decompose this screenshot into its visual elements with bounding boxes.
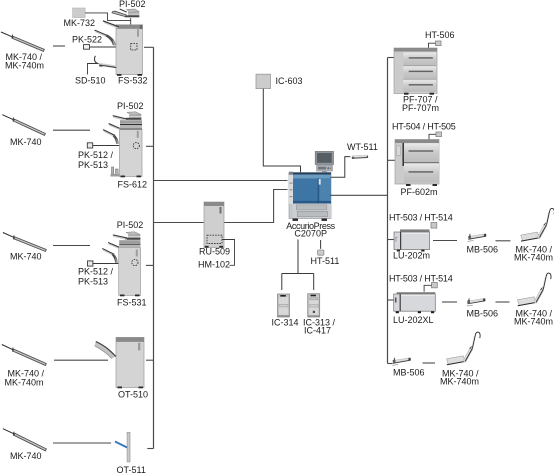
label MB-506 row2 (467, 309, 499, 319)
trays FS-531 (102, 235, 127, 263)
tray MB-506 row2 (467, 298, 486, 306)
svg-text:MK-740: MK-740 (10, 252, 42, 262)
label LU-202m (393, 251, 430, 261)
svg-text:C2070P: C2070P (294, 229, 327, 239)
label OT-510 (118, 390, 148, 400)
label MK-732 (64, 18, 96, 28)
mount kit MK-740/MK-740m icon group1 (1, 32, 44, 51)
wire dash group3 (53, 245, 90, 247)
label MB-506 row1 (467, 245, 499, 255)
controller IC-314 tower (278, 294, 290, 317)
svg-text:MK-740m: MK-740m (5, 61, 44, 71)
svg-text:MB-506: MB-506 (467, 245, 499, 255)
wire tick LU-202m (388, 239, 397, 241)
label MB-506 row3 (393, 368, 425, 378)
label RU-509 (199, 247, 230, 257)
label IC-603 (276, 76, 303, 86)
label MK-740 / MK-740m row3 (440, 369, 479, 387)
label AccurioPress C2070P (286, 221, 335, 239)
mount kit MK-740 icon group2 (2, 115, 45, 136)
svg-text:PF-602m: PF-602m (401, 187, 438, 197)
svg-text:IC-314: IC-314 (272, 318, 299, 328)
large capacity unit LU-202m box (394, 229, 430, 251)
svg-text:MK-740m: MK-740m (514, 317, 553, 327)
wire machine to right bus (330, 194, 388, 196)
label PK-512/PK-513 group2 (78, 150, 114, 170)
svg-text:PK-512 /: PK-512 / (78, 267, 114, 277)
hole punch dashed circle FS-531 (132, 259, 138, 265)
paper feeder PF-602m box (395, 140, 439, 187)
interface MK-732 box (73, 8, 86, 18)
label HM-102 (198, 260, 230, 270)
label PI-502 group3 (117, 220, 144, 230)
wire bus to machine upper (154, 180, 288, 182)
label PF-707 / PF-707m (402, 94, 439, 113)
label WT-511 (347, 142, 378, 152)
svg-text:RU-509: RU-509 (199, 247, 230, 257)
label MK-740 / MK-740m row2 (514, 309, 553, 327)
label HT-506 (425, 30, 455, 40)
label IC-314 (272, 318, 299, 328)
label SD-510 (75, 76, 106, 86)
svg-text:LU-202XL: LU-202XL (393, 315, 434, 325)
label PI-502 group1 (119, 0, 146, 9)
svg-text:OT-510: OT-510 (118, 390, 148, 400)
output tray OT-510 box (116, 337, 144, 388)
svg-text:PI-502: PI-502 (117, 101, 144, 111)
svg-text:IC-603: IC-603 (276, 76, 303, 86)
wire left bus (153, 47, 155, 448)
heater HT-503/514 upper box (431, 223, 437, 229)
svg-text:PK-513: PK-513 (78, 160, 108, 170)
wire tick PF-707 (388, 57, 395, 59)
wire WT-511 (331, 157, 351, 178)
svg-text:HT-503 / HT-514: HT-503 / HT-514 (389, 274, 453, 284)
svg-text:MK-732: MK-732 (64, 18, 96, 28)
tray MB-506 row3 (392, 358, 411, 366)
svg-text:FS-531: FS-531 (117, 298, 147, 308)
image controller IC-603 box (256, 74, 271, 88)
label PF-602m (401, 187, 438, 197)
label MK-740 / MK-740m group4 (5, 369, 45, 388)
label FS-612 (118, 179, 148, 189)
label LU-202XL (393, 315, 434, 325)
wire dash group5 (53, 442, 111, 444)
wire MK-732 to PI-502 (85, 13, 131, 25)
finisher FS-531 box (119, 232, 141, 296)
label HT-503 / HT-514 lower (389, 274, 453, 284)
mount kit MK-740 icon group3 (3, 233, 46, 252)
label OT-511 (117, 465, 146, 474)
svg-text:PK-512 /: PK-512 / (78, 150, 114, 160)
post inserter PI-502 icon group1 (112, 9, 139, 17)
wire SD-510 label (88, 64, 98, 75)
mount kit MK-740 hook row1 (521, 208, 554, 241)
svg-text:MK-740: MK-740 (10, 451, 42, 461)
svg-text:FS-532: FS-532 (118, 76, 148, 86)
wire dash MB to MK row2 (496, 301, 510, 303)
trays FS-532 (95, 21, 119, 45)
svg-text:MB-506: MB-506 (467, 309, 499, 319)
wire tick FS-612 (146, 145, 154, 147)
mount kit MK-740 hook row3 (447, 332, 481, 365)
svg-text:HT-503 / HT-514: HT-503 / HT-514 (389, 213, 453, 223)
wire tick PF-602m (388, 159, 396, 161)
wire HM-102 label (222, 240, 235, 266)
svg-text:WT-511: WT-511 (347, 142, 378, 152)
wire tick LU-202XL (388, 299, 397, 301)
label FS-532 (118, 76, 148, 86)
svg-text:SD-510: SD-510 (75, 76, 106, 86)
label PK-522 (72, 35, 102, 45)
wire HT-504 elbow (429, 134, 436, 139)
wire tick OT-510 (146, 359, 154, 361)
mount kit MK-740 icon group5 (3, 429, 47, 451)
label HT-503 / HT-514 upper (389, 213, 453, 223)
finisher FS-532 box (116, 25, 143, 76)
controller IC-313/IC-417 tower (308, 294, 320, 317)
punch kit PK-522 (84, 45, 90, 50)
wire machine to IC towers (282, 240, 314, 291)
tray MB-506 row1 (468, 234, 487, 242)
humidifier HM-102 dashed box (207, 235, 222, 243)
wire PK-522 to punch slot (90, 46, 131, 48)
large capacity unit LU-202XL box (394, 292, 436, 313)
wire dash group1 (53, 45, 65, 47)
svg-text:PI-502: PI-502 (117, 220, 144, 230)
relay unit RU-509 box (204, 202, 224, 248)
wire HT-503 lower elbow (424, 285, 431, 292)
svg-text:MK-740m: MK-740m (5, 378, 44, 388)
hole punch dashed circle FS-612 (133, 143, 139, 149)
wire PK to circle group3 (93, 263, 132, 265)
tray icon OT-510 (95, 342, 116, 359)
svg-text:HT-511: HT-511 (311, 256, 340, 266)
svg-text:OT-511: OT-511 (117, 465, 146, 474)
trays FS-612 (103, 116, 127, 144)
printer AccurioPress C2070P (289, 151, 334, 221)
punch kit PK-512/PK-513 group2 (87, 143, 92, 148)
svg-text:MK-740: MK-740 (10, 137, 42, 147)
svg-text:LU-202m: LU-202m (393, 251, 430, 261)
svg-text:HM-102: HM-102 (198, 260, 230, 270)
wire dash LU-202m to MB-506 (433, 240, 457, 242)
wire IC-603 to machine (263, 89, 300, 174)
punch kit PK-512/PK-513 group3 (88, 261, 93, 266)
svg-text:HT-504 / HT-505: HT-504 / HT-505 (392, 122, 456, 132)
svg-text:FS-612: FS-612 (118, 179, 148, 189)
label MK-740 group3 (10, 252, 42, 262)
svg-text:PK-513: PK-513 (78, 277, 108, 287)
wire tick FS-531 (146, 264, 154, 266)
label MK-740 group2 (10, 137, 42, 147)
punch slot dashed square FS-532 (131, 44, 137, 50)
wire right bus (387, 58, 389, 364)
label HT-511 (311, 256, 340, 266)
output tray OT-511 (115, 432, 130, 462)
wire HT-506 elbow (429, 43, 436, 48)
svg-text:PI-502: PI-502 (119, 0, 146, 9)
waste tray WT-511 icon (352, 155, 368, 159)
wire machine to HT-511 (320, 240, 322, 249)
label IC-313 / IC-417 (303, 318, 336, 336)
label MK-740 group5 (10, 451, 42, 461)
svg-text:IC-417: IC-417 (304, 326, 331, 336)
label PK-512/PK-513 group3 (78, 267, 114, 287)
wire dash group4 (54, 359, 108, 361)
svg-text:MB-506: MB-506 (393, 368, 425, 378)
wire tick FS-532 (144, 46, 154, 48)
svg-text:MK-740m: MK-740m (514, 253, 553, 263)
svg-text:HT-506: HT-506 (425, 30, 455, 40)
wire tick OT-511 (147, 448, 153, 450)
label MK-740 / MK-740m row1 (514, 245, 553, 263)
wire dash MB to MK row1 (496, 240, 511, 242)
wire dash LU-202XL to MB-506 (442, 301, 457, 303)
label HT-504 / HT-505 (392, 122, 456, 132)
label FS-531 (117, 298, 147, 308)
heater HT-511 box (318, 250, 324, 255)
finisher FS-612 box (120, 112, 143, 178)
wire tick MB-506 bottom (388, 363, 393, 365)
wire bus to machine lower via RU-509 (154, 190, 288, 223)
svg-text:MK-740m: MK-740m (440, 377, 479, 387)
saddle stitcher SD-510 icon (94, 56, 116, 68)
label MK-740 / MK-740m group1 (5, 52, 44, 71)
folding unit feet FS-612 (111, 167, 120, 177)
svg-text:PK-522: PK-522 (72, 35, 102, 45)
heater HT-504/505 box (436, 132, 442, 137)
wire PK to circle group2 (93, 145, 133, 147)
paper feeder PF-707 box (394, 48, 437, 95)
mount kit MK-740/MK-740m icon group4 (2, 345, 47, 366)
svg-text:PF-707m: PF-707m (402, 103, 439, 113)
mount kit MK-740 hook row2 (517, 273, 551, 306)
label PI-502 group2 (117, 101, 144, 111)
heater HT-506 box (436, 41, 442, 46)
heater HT-503/514 lower box (432, 283, 438, 288)
wire dash group2 (53, 129, 90, 131)
wire dash MB to MK row3 (423, 362, 436, 364)
